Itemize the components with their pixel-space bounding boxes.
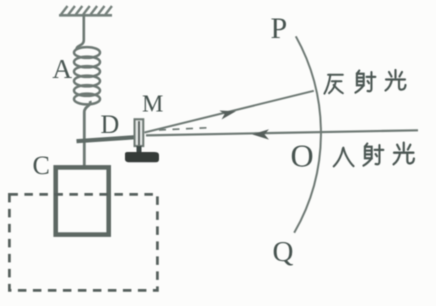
svg-text:D: D: [101, 110, 120, 139]
光: [386, 70, 406, 91]
wire hanger rod from ceiling: [76, 15, 83, 50]
reflected ray: [145, 91, 314, 133]
入: [334, 148, 354, 167]
svg-text:P: P: [271, 12, 288, 45]
射: [355, 71, 375, 93]
svg-text:A: A: [52, 53, 72, 84]
incident ray: [146, 130, 418, 135]
svg-text:O: O: [291, 138, 314, 174]
射: [363, 144, 383, 166]
incident ray arrowhead: [252, 129, 269, 139]
光: [394, 143, 414, 165]
text 反射光 (reflected light) hand-drawn: [324, 70, 405, 94]
arc screen P-Q: [294, 36, 321, 233]
dashed enclosure box: [9, 194, 157, 290]
spring A: [74, 47, 100, 104]
svg-text:M: M: [142, 92, 163, 118]
reflected ray arrowhead: [219, 107, 237, 120]
svg-text:Q: Q: [273, 236, 294, 268]
dashed reference line at mirror: [159, 128, 209, 130]
block C: [56, 167, 109, 234]
反: [324, 75, 342, 94]
horizontal rod D-M: [77, 137, 142, 141]
mirror base: [125, 152, 159, 162]
ceiling fixed support: [59, 6, 112, 15]
text 入射光 (incident light) hand-drawn: [334, 143, 414, 167]
mirror M: [135, 119, 144, 152]
wire rod below spring: [84, 101, 90, 166]
svg-text:C: C: [33, 151, 50, 180]
